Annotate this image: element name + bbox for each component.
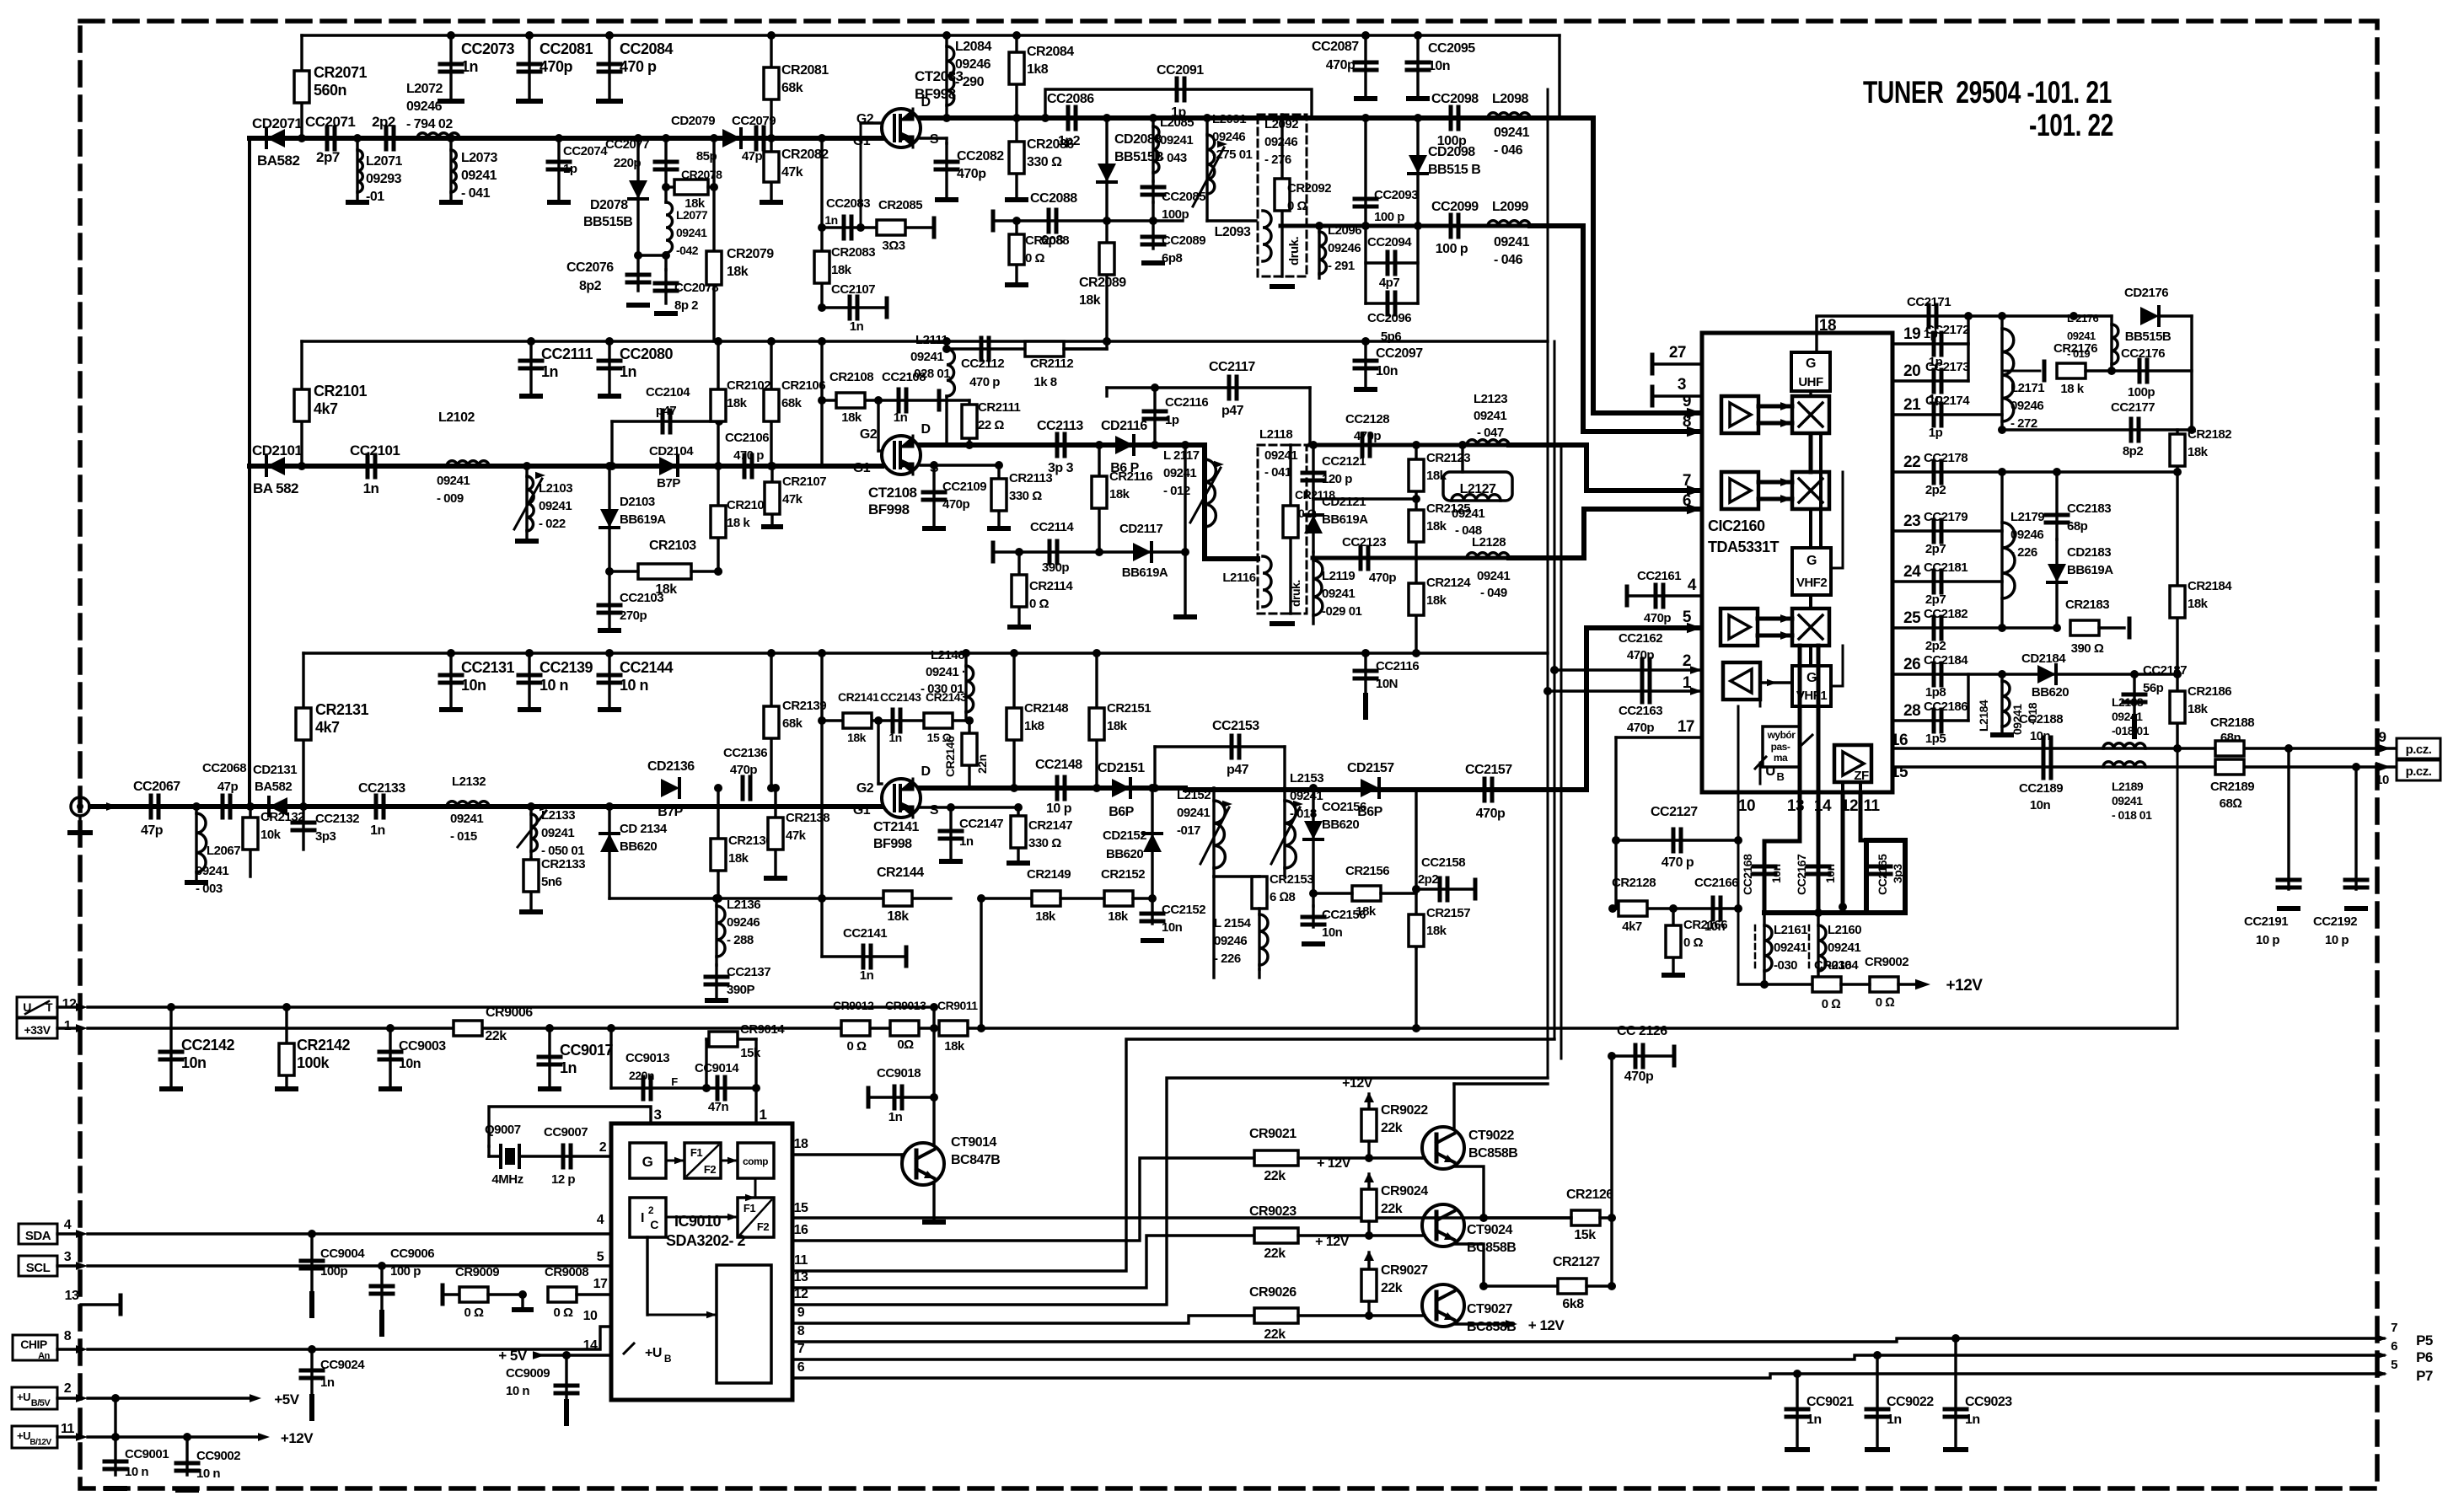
svg-text:470p: 470p	[730, 763, 758, 777]
svg-text:CC2111: CC2111	[541, 346, 593, 362]
svg-text:BB619A: BB619A	[2067, 563, 2113, 577]
IF output line 16	[1892, 747, 2394, 749]
pin 15 line to CR2126	[792, 1216, 1571, 1219]
capacitor CC9013	[609, 1028, 612, 1088]
svg-text:L2098: L2098	[1492, 92, 1528, 106]
svg-text:CC2116: CC2116	[1376, 659, 1419, 673]
wire band1 out to pin9	[1530, 118, 1699, 413]
svg-text:+ 12V: + 12V	[1315, 1235, 1350, 1249]
svg-text:+ 12V: + 12V	[1317, 1156, 1351, 1171]
capacitor CC2087	[1364, 35, 1366, 97]
wire x1406 col	[1184, 445, 1186, 615]
svg-text:+12V: +12V	[1342, 1076, 1373, 1091]
diode CD2088	[1105, 118, 1108, 221]
svg-text:56p: 56p	[2143, 681, 2164, 695]
svg-text:09241: 09241	[461, 169, 497, 183]
inductor L2072	[417, 133, 459, 138]
resistor CR2152	[1104, 891, 1133, 906]
svg-text:CC2077: CC2077	[605, 137, 649, 152]
svg-text:CC2168: CC2168	[1741, 854, 1754, 895]
resistor CR2127 6k8	[1484, 1284, 1558, 1287]
svg-text:CC2152: CC2152	[1162, 903, 1205, 917]
diode CD2071	[266, 129, 285, 147]
wire bus2 drain output	[921, 442, 1185, 448]
resistor CR2149	[981, 897, 1032, 899]
svg-text:CR2125: CR2125	[1426, 501, 1470, 516]
capacitor CC2188	[2043, 737, 2051, 759]
svg-text:CR2144: CR2144	[877, 866, 924, 880]
wire CD2121 row	[1313, 497, 1416, 500]
svg-text:4k7: 4k7	[314, 400, 338, 417]
svg-text:3p3: 3p3	[315, 829, 336, 844]
SDA line	[57, 1232, 81, 1235]
pin 1 riser	[754, 1039, 757, 1123]
mosfet CT2108 BF998	[882, 436, 921, 475]
diode D2103	[608, 466, 610, 571]
svg-text:09293: 09293	[366, 172, 402, 186]
svg-text:CC2097: CC2097	[1376, 346, 1423, 361]
svg-text:18: 18	[794, 1137, 808, 1151]
svg-text:CC2142: CC2142	[181, 1037, 235, 1054]
resistor CR2116	[1098, 445, 1100, 552]
wire 33V riser to CR2182	[2177, 748, 2179, 1028]
capacitor CC9024	[310, 1349, 313, 1401]
resistor CR2106	[770, 341, 772, 466]
inductor L2188	[2103, 743, 2145, 748]
svg-text:47p: 47p	[217, 780, 239, 794]
svg-text:L2116: L2116	[1222, 571, 1255, 585]
resistor CR2148	[1012, 653, 1015, 788]
capacitor CC2108	[899, 389, 906, 411]
svg-text:F1: F1	[744, 1202, 755, 1214]
inductor L2093	[1263, 211, 1271, 261]
svg-text:330 Ω: 330 Ω	[1028, 836, 1061, 850]
svg-text:U: U	[1765, 763, 1775, 779]
svg-text:CC9007: CC9007	[544, 1125, 588, 1139]
resistor CR2144 18k	[883, 891, 912, 906]
svg-text:18k: 18k	[847, 731, 867, 744]
capacitor CC2144	[608, 653, 610, 708]
svg-text:2: 2	[1683, 652, 1691, 670]
svg-text:470p: 470p	[1627, 721, 1655, 735]
svg-text:0 Ω: 0 Ω	[1683, 936, 1704, 950]
capacitor CC2096	[1366, 302, 1418, 304]
svg-text:6 Ω8: 6 Ω8	[1270, 890, 1296, 904]
svg-text:1n: 1n	[1965, 1413, 1980, 1427]
svg-text:18k: 18k	[944, 1039, 965, 1054]
diode CD2157	[1361, 779, 1379, 797]
wire CR2157 to UT line	[1415, 948, 1417, 1028]
resistor CR9009	[441, 1285, 445, 1304]
wire CC2153 row	[1155, 745, 1285, 748]
UB/5V connector box	[12, 1387, 57, 1409]
svg-text:CR2189: CR2189	[2210, 780, 2254, 794]
G box	[630, 1143, 666, 1178]
svg-text:17: 17	[593, 1277, 608, 1291]
svg-text:CR2133: CR2133	[541, 857, 585, 871]
svg-text:CC2106: CC2106	[725, 431, 769, 445]
resistor CR2139	[770, 653, 772, 788]
ground druk box1	[1272, 284, 1292, 289]
svg-text:1p5: 1p5	[1925, 732, 1946, 746]
svg-text:TUNER 29504 -101. 21: TUNER 29504 -101. 21	[1863, 75, 2112, 110]
svg-text:CR9022: CR9022	[1381, 1103, 1428, 1118]
internal wiring	[1809, 437, 1813, 472]
pin 12 line	[792, 1078, 1548, 1305]
inductor L2103	[525, 466, 528, 539]
svg-text:CR2111: CR2111	[978, 400, 1021, 415]
svg-text:3p 3: 3p 3	[1048, 461, 1074, 475]
IC9010 SDA3202-2 outline	[611, 1123, 792, 1400]
svg-text:1n: 1n	[560, 1059, 577, 1076]
svg-text:2p7: 2p7	[316, 149, 340, 165]
diode CD2152	[1151, 788, 1153, 898]
svg-text:BB620: BB620	[620, 839, 657, 854]
svg-text:+33V: +33V	[24, 1023, 51, 1037]
inductor L2085	[1152, 118, 1154, 181]
svg-text:09246: 09246	[2010, 399, 2043, 413]
capacitor CC2168	[1753, 866, 1775, 874]
svg-text:P6: P6	[2416, 1349, 2433, 1365]
svg-text:1p: 1p	[1929, 426, 1943, 440]
svg-text:22n: 22n	[975, 754, 989, 774]
svg-text:ma: ma	[1774, 752, 1788, 764]
capacitor CC2068	[223, 796, 230, 818]
diode CD2184	[2037, 665, 2056, 684]
svg-text:CC2133: CC2133	[358, 781, 405, 796]
svg-text:1n: 1n	[824, 213, 837, 227]
svg-text:18k: 18k	[728, 851, 749, 866]
svg-text:18k: 18k	[831, 263, 852, 277]
amp band2	[1721, 472, 1758, 509]
diode CD2134	[608, 807, 610, 898]
svg-text:L2188: L2188	[2112, 695, 2144, 709]
capacitor CC9007	[519, 1155, 611, 1157]
svg-text:470p: 470p	[1644, 611, 1672, 625]
svg-text:D2103: D2103	[620, 495, 655, 509]
pin 7 line P6	[792, 1355, 2384, 1359]
svg-text:CR9024: CR9024	[1381, 1184, 1428, 1198]
svg-text:470p: 470p	[1369, 571, 1397, 585]
svg-text:CC2080: CC2080	[620, 346, 674, 362]
svg-text:CD2104: CD2104	[649, 444, 694, 458]
inductor L2153 tunable	[1283, 788, 1286, 877]
resistor CR9006	[454, 1021, 482, 1036]
resistor CR2107	[770, 466, 773, 525]
svg-text:CR2103: CR2103	[649, 539, 696, 553]
IC CIC2160 TDA5331T outline	[1702, 333, 1892, 792]
svg-text:CC2089: CC2089	[1162, 233, 1205, 248]
svg-text:6: 6	[1683, 492, 1691, 510]
svg-text:0 Ω: 0 Ω	[846, 1039, 867, 1054]
svg-text:10 n: 10 n	[196, 1466, 220, 1481]
SCL line	[57, 1264, 81, 1267]
svg-text:68p: 68p	[2067, 519, 2088, 533]
svg-text:390 Ω: 390 Ω	[2071, 641, 2104, 656]
svg-text:p.cz.: p.cz.	[2406, 764, 2432, 779]
svg-text:100p: 100p	[320, 1264, 348, 1279]
svg-text:15k: 15k	[740, 1046, 761, 1060]
resistor CR2108	[836, 393, 865, 408]
svg-text:1n: 1n	[1806, 1413, 1822, 1427]
svg-text:CC2091: CC2091	[1157, 63, 1204, 78]
svg-text:CC2116: CC2116	[1165, 395, 1208, 410]
svg-text:1n: 1n	[320, 1375, 335, 1390]
svg-text:CC2141: CC2141	[843, 926, 887, 941]
resistor CR2113	[997, 465, 1000, 527]
inductor L2152 tunable	[1212, 788, 1215, 877]
capacitor CC2121	[1312, 445, 1314, 499]
svg-text:1n: 1n	[888, 1110, 903, 1124]
svg-text:18k: 18k	[2188, 597, 2209, 611]
inductor L2091 tunable	[1205, 118, 1208, 221]
resistor CR2141	[843, 713, 872, 728]
capacitor CC9021	[1796, 1374, 1798, 1448]
svg-text:SDA3202- 2: SDA3202- 2	[666, 1232, 746, 1249]
svg-text:CD2101: CD2101	[252, 442, 302, 458]
resistor CR2131	[296, 708, 311, 740]
svg-text:CD2151: CD2151	[1098, 761, 1145, 775]
mixer band2	[1792, 472, 1829, 509]
svg-text:CC2188: CC2188	[2019, 712, 2063, 727]
pin 17 line	[1616, 736, 1702, 738]
svg-text:9: 9	[797, 1306, 805, 1320]
capacitor CC2074	[557, 138, 560, 201]
pin 3 stub	[1651, 387, 1655, 405]
svg-text:18 k: 18 k	[2060, 382, 2084, 396]
svg-text:18k: 18k	[1426, 519, 1447, 533]
pin 11 line down to CC2165 box	[1860, 792, 1866, 840]
svg-text:CR2092: CR2092	[1287, 181, 1331, 196]
svg-text:+12V: +12V	[281, 1430, 314, 1446]
svg-text:5n6: 5n6	[541, 875, 562, 889]
mosfet CT2083 BF998	[882, 109, 921, 147]
svg-text:1n: 1n	[894, 410, 908, 425]
svg-text:CR2153: CR2153	[1270, 872, 1313, 887]
svg-text:- 046: - 046	[1494, 143, 1523, 158]
svg-text:- 022: - 022	[539, 517, 566, 531]
svg-text:1p: 1p	[563, 162, 577, 176]
svg-text:7: 7	[797, 1342, 805, 1356]
svg-text:68k: 68k	[781, 396, 803, 410]
svg-text:CD2079: CD2079	[671, 114, 715, 128]
svg-text:22 Ω: 22 Ω	[978, 418, 1004, 432]
capacitor CC2143	[893, 710, 900, 732]
resistor CR9012	[841, 1021, 870, 1036]
wire CT2108 source	[921, 464, 999, 466]
wire band1 second output	[1280, 224, 1583, 228]
capacitor CC2192	[2354, 767, 2357, 889]
wire band1 out to pin8	[1530, 226, 1699, 432]
svg-text:D: D	[921, 95, 930, 110]
svg-text:470p: 470p	[1326, 58, 1356, 72]
pin 22 line	[1892, 470, 2177, 473]
svg-text:22k: 22k	[1381, 1121, 1403, 1135]
svg-text:F1: F1	[690, 1146, 702, 1159]
svg-text:330 Ω: 330 Ω	[1027, 155, 1062, 169]
wire L2154 to CR2156	[1258, 969, 1260, 978]
mixer UHF	[1792, 396, 1829, 433]
svg-text:CC2081: CC2081	[540, 40, 593, 57]
inductor L2084	[945, 35, 948, 118]
svg-text:CR2107: CR2107	[782, 475, 826, 489]
wire into box2	[1205, 539, 1258, 559]
pin 9 line	[792, 1316, 1254, 1323]
CT9014 emitter	[932, 1183, 935, 1220]
svg-text:CC2173: CC2173	[1925, 360, 1969, 374]
svg-text:9: 9	[2379, 729, 2386, 745]
svg-text:09241: 09241	[1828, 941, 1860, 955]
svg-text:CC2165: CC2165	[1876, 854, 1889, 895]
svg-text:comp: comp	[743, 1155, 768, 1167]
wire left column vertical	[248, 138, 251, 807]
svg-text:12: 12	[794, 1287, 808, 1301]
wire bus1 left (to CT2083 gate)	[250, 136, 882, 141]
svg-text:L2161: L2161	[1774, 923, 1807, 937]
svg-text:470p: 470p	[1627, 648, 1655, 662]
svg-text:CT9027: CT9027	[1467, 1302, 1513, 1316]
svg-text:CR9002: CR9002	[1865, 955, 1908, 969]
svg-text:G1: G1	[853, 803, 871, 818]
svg-text:CR2136: CR2136	[728, 834, 772, 848]
svg-text:CC9006: CC9006	[390, 1247, 434, 1261]
svg-text:CC2179: CC2179	[1924, 510, 1968, 524]
svg-text:-018 01: -018 01	[2112, 724, 2150, 737]
svg-text:CR2186: CR2186	[2188, 684, 2231, 699]
svg-text:CC2107: CC2107	[831, 282, 875, 297]
component L2127	[1461, 445, 1463, 472]
svg-text:560n: 560n	[314, 82, 346, 99]
svg-text:47p: 47p	[742, 149, 763, 164]
svg-text:11: 11	[794, 1253, 808, 1268]
svg-text:CR2148: CR2148	[1024, 701, 1068, 716]
svg-text:CC2187: CC2187	[2143, 663, 2187, 678]
wire CC2112 row	[947, 347, 1107, 350]
svg-text:L 2176: L 2176	[2067, 312, 2099, 324]
resistor CR9026	[1254, 1308, 1298, 1323]
svg-text:CC9018: CC9018	[877, 1066, 921, 1080]
svg-text:- 046: - 046	[1494, 253, 1523, 267]
resistor CR2124	[1415, 558, 1417, 653]
svg-text:+5V: +5V	[274, 1391, 299, 1407]
svg-text:CR2176: CR2176	[2053, 341, 2097, 356]
pin 25 line	[1892, 626, 2057, 629]
svg-text:5: 5	[597, 1250, 604, 1264]
resistor CR2138	[774, 788, 776, 877]
svg-text:CC2096: CC2096	[1367, 311, 1411, 325]
svg-text:L 2117: L 2117	[1163, 448, 1200, 463]
svg-text:19: 19	[1903, 325, 1920, 343]
diode CD2183	[2055, 539, 2058, 628]
svg-text:+U: +U	[17, 1429, 30, 1442]
pin 13 line down	[1764, 792, 1800, 913]
svg-text:CC9004: CC9004	[320, 1247, 365, 1261]
resistor CR2078	[666, 185, 674, 188]
svg-text:D2078: D2078	[590, 198, 628, 212]
svg-text:BB620: BB620	[1322, 818, 1359, 832]
svg-text:1n: 1n	[860, 968, 874, 983]
svg-text:18: 18	[1819, 317, 1836, 335]
U/T connector box	[17, 997, 57, 1017]
svg-text:6: 6	[797, 1360, 805, 1375]
svg-text:3p3: 3p3	[1891, 864, 1904, 883]
svg-text:CR2131: CR2131	[315, 701, 369, 718]
svg-text:D: D	[921, 764, 930, 779]
svg-text:CC2071: CC2071	[305, 114, 355, 130]
capacitor CC2112	[981, 338, 989, 360]
svg-text:7: 7	[1683, 472, 1691, 490]
capacitor CC2086	[1068, 107, 1076, 129]
CT9014 collector	[930, 1093, 938, 1102]
svg-text:CD2098: CD2098	[1428, 145, 1475, 159]
svg-text:G2: G2	[860, 427, 878, 442]
resistor CR9008	[548, 1287, 577, 1302]
SCL connector box	[19, 1256, 57, 1276]
svg-text:CR2184: CR2184	[2188, 579, 2232, 593]
capacitor CC2109	[932, 465, 935, 527]
svg-text:- 041: - 041	[461, 186, 491, 201]
capacitor CC2111	[529, 341, 532, 394]
svg-text:1p8: 1p8	[1925, 685, 1946, 700]
svg-text:2p7: 2p7	[1925, 542, 1946, 556]
svg-text:470 p: 470 p	[733, 448, 764, 463]
long vertical control line A	[1547, 89, 1549, 1078]
capacitor CC2177	[2131, 419, 2139, 441]
svg-text:14: 14	[583, 1338, 598, 1353]
svg-text:CT9014: CT9014	[951, 1135, 997, 1150]
svg-text:CR9014: CR9014	[740, 1022, 785, 1037]
svg-text:+U: +U	[645, 1346, 662, 1360]
svg-text:4: 4	[64, 1218, 72, 1232]
svg-text:2p2: 2p2	[1925, 483, 1946, 497]
svg-text:F: F	[671, 1075, 678, 1088]
svg-text:-042: -042	[676, 244, 699, 257]
inductor L2128	[1467, 553, 1509, 558]
inductor L2146	[964, 653, 967, 721]
diode CD2121	[1312, 499, 1314, 552]
svg-text:1: 1	[760, 1107, 767, 1123]
svg-text:CR2164: CR2164	[1814, 958, 1859, 973]
svg-text:CD2116: CD2116	[1101, 419, 1147, 433]
svg-text:CC2103: CC2103	[620, 591, 663, 605]
svg-text:- 041: - 041	[1264, 465, 1291, 480]
svg-text:- 226: - 226	[1214, 952, 1241, 966]
svg-text:CC2156: CC2156	[1322, 908, 1366, 922]
svg-text:470p: 470p	[1354, 429, 1382, 443]
capacitor CC2173	[1934, 370, 1941, 392]
svg-text:10n: 10n	[181, 1054, 207, 1071]
svg-text:CC2143: CC2143	[880, 690, 921, 704]
svg-text:p47: p47	[1221, 404, 1244, 418]
svg-text:CR9008: CR9008	[545, 1265, 588, 1279]
SDA connector box	[19, 1224, 57, 1244]
resistor CR2083	[814, 251, 829, 283]
ZF amp	[1834, 745, 1871, 782]
wire band2 pin7 line	[1310, 443, 1586, 448]
svg-text:CC9022: CC9022	[1887, 1395, 1934, 1409]
resistor CR2112	[1025, 341, 1064, 357]
svg-text:10 p: 10 p	[2325, 933, 2349, 947]
svg-text:09241: 09241	[1160, 133, 1193, 147]
svg-text:390P: 390P	[727, 983, 755, 997]
svg-text:18k: 18k	[1109, 487, 1130, 501]
resistor CR2147	[1017, 807, 1019, 861]
diode CD2116	[1115, 436, 1134, 454]
wire crossbar	[638, 254, 666, 256]
svg-text:CC9024: CC9024	[320, 1358, 365, 1372]
capacitor CC2128	[1362, 434, 1370, 456]
resistor CR2166	[1672, 909, 1674, 973]
